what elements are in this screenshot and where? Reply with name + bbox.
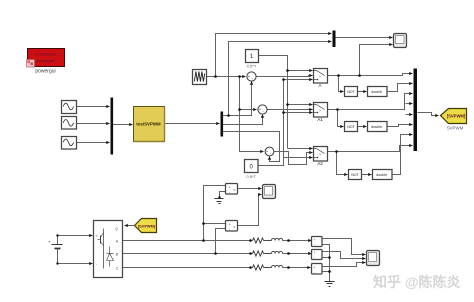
svg-text:+: + bbox=[314, 238, 316, 242]
sine wave source 2 bbox=[62, 117, 77, 130]
wire sum1 out to switchA in2 bbox=[256, 76, 313, 77]
wire switchA branch to NOT1 bbox=[339, 76, 344, 92]
junction trunk1 A1 bbox=[286, 103, 289, 106]
svg-text:-: - bbox=[314, 242, 315, 246]
scope Scope2 bbox=[263, 185, 276, 199]
wire sum2 out to switchA1 in2 bbox=[267, 109, 313, 111]
wire constant1 to trunk bbox=[259, 56, 288, 149]
junction trunk1 A bbox=[286, 69, 289, 72]
junction carrier riser bbox=[214, 75, 217, 78]
universal bridge bbox=[94, 221, 123, 278]
series RLC branch L1 bbox=[264, 238, 283, 240]
wire sum3 out to switchA2 in2 bbox=[274, 152, 313, 165]
logical operator NOT3 bbox=[349, 170, 362, 180]
svg-text:+: + bbox=[259, 107, 262, 112]
wire constant0 to trunk0 bbox=[259, 80, 284, 166]
svg-text:[SVPWM]: [SVPWM] bbox=[447, 114, 466, 119]
voltage measurement VM2 bbox=[226, 221, 238, 232]
wire trunk0 branch to switchA in3 bbox=[284, 79, 313, 81]
svg-text:0.5*T: 0.5*T bbox=[247, 64, 257, 69]
wire switchA1 out to mux2 bbox=[328, 94, 413, 110]
scope Scope1 bbox=[394, 34, 407, 48]
wire double3 to mux2 bbox=[392, 135, 413, 175]
wire NOT3 to double3 bbox=[362, 174, 372, 176]
svg-text:double: double bbox=[376, 173, 387, 177]
wire phase B line bbox=[123, 253, 253, 255]
wire demux out3 wrap to sum3 bottom bbox=[223, 132, 280, 162]
junction VM5 neutral bbox=[328, 270, 331, 273]
junction scope1 riser bbox=[358, 74, 361, 77]
series RLC branch R3 bbox=[253, 265, 264, 270]
wire trunk1 branch to switchA2 in1 bbox=[288, 148, 313, 150]
svg-text:+: + bbox=[229, 222, 231, 226]
wire VM2 in2 tap from phase B bbox=[216, 229, 226, 254]
series RLC branch R1 bbox=[253, 238, 264, 243]
junction DC top corner bbox=[56, 234, 58, 236]
svg-text:double: double bbox=[371, 90, 382, 94]
wire mux2 to goto tag bbox=[418, 113, 439, 116]
junction carrier trunk bbox=[238, 75, 241, 78]
svg-text:+: + bbox=[48, 240, 51, 245]
junction L1 right bbox=[287, 239, 290, 242]
wire carrier branch to sum2 bbox=[240, 109, 257, 111]
sum Add1 bbox=[247, 72, 256, 81]
svg-text:SVPWM: SVPWM bbox=[447, 126, 464, 131]
wire carrier repseq to sum1 bbox=[207, 76, 246, 78]
series RLC branch L2 bbox=[264, 251, 283, 253]
wire NOT2 to double2 bbox=[358, 126, 367, 128]
junction VM4 neutral bbox=[328, 256, 331, 259]
wire carrier riser to scope line1 bbox=[216, 34, 332, 77]
powergui block bbox=[27, 49, 65, 75]
junction R2 left bbox=[249, 252, 252, 255]
mux Mux3 top bbox=[333, 31, 336, 48]
svg-text:+: + bbox=[229, 185, 231, 189]
wire VM2 to scope2 bbox=[238, 195, 262, 226]
junction switchA1 out bbox=[336, 108, 339, 111]
switch A1 bbox=[314, 103, 328, 122]
wire demux out1 riser to scope line2 bbox=[229, 42, 332, 116]
mux Mux1 bbox=[111, 98, 114, 155]
svg-text:testSVPWM: testSVPWM bbox=[136, 122, 161, 127]
repeating sequence carrier bbox=[193, 70, 207, 85]
wire trunk0 branch to switchA2 in3 bbox=[284, 157, 313, 159]
wire mux2 stub in5 bbox=[406, 114, 413, 116]
wire trunk1 branch to switchA1 in1 bbox=[288, 104, 313, 106]
wire switchA2 out to mux2 bbox=[328, 146, 413, 152]
junction switchA2 out bbox=[335, 150, 338, 153]
wire VM1 in2 to ground1 bbox=[220, 192, 226, 199]
voltage measurement VM5 bbox=[312, 264, 323, 275]
constant Constant1 value 1 bbox=[246, 50, 259, 69]
data type conversion double2 bbox=[368, 122, 388, 132]
svg-text:powergui: powergui bbox=[37, 58, 55, 63]
svg-text:知乎 @陈陈炎: 知乎 @陈陈炎 bbox=[373, 274, 461, 290]
svg-text:+: + bbox=[266, 149, 269, 154]
wire phase C after RL to VM5 bbox=[283, 267, 311, 269]
wire mux1 to testSVPWM bbox=[113, 124, 133, 126]
junction DC bottom corner bbox=[56, 262, 58, 264]
junction R1 left bbox=[249, 239, 252, 242]
logical operator NOT2 bbox=[345, 122, 358, 132]
svg-text:NOT: NOT bbox=[347, 125, 355, 129]
switch A bbox=[314, 69, 328, 88]
DC voltage source battery bbox=[48, 240, 63, 249]
wire phase B after RL to VM4 bbox=[283, 253, 312, 255]
svg-text:+: + bbox=[248, 74, 251, 79]
wire demux out1 to sum1 bottom bbox=[223, 82, 252, 116]
svg-text:NOT: NOT bbox=[347, 90, 355, 94]
svg-text:powergui: powergui bbox=[35, 69, 55, 75]
series RLC branch L3 bbox=[264, 265, 283, 267]
wire scope1 input2 riser bbox=[360, 45, 393, 76]
sum Add3 bbox=[265, 147, 274, 156]
wire double2 to mux2 bbox=[387, 125, 413, 127]
junction trunk0 A1 bbox=[282, 111, 285, 114]
wire sine2 to mux bbox=[77, 123, 110, 125]
wire testSVPWM to demux bbox=[165, 123, 220, 125]
junction ground1 top bbox=[218, 196, 220, 198]
voltage measurement VM1 bbox=[226, 184, 238, 195]
wire switchA out to mux2 bbox=[328, 74, 413, 76]
wire VM5 neutral bbox=[322, 271, 330, 273]
wire switchA2 branch to NOT3 bbox=[337, 152, 348, 175]
from tag SVPWM1 bbox=[135, 219, 157, 233]
wire sine3 to mux bbox=[77, 142, 110, 144]
demux Demux bbox=[221, 112, 224, 137]
junction VM2 tap on B bbox=[214, 252, 217, 255]
wire trunk0 branch to switchA1 in3 bbox=[284, 112, 313, 114]
junction L3 right bbox=[287, 266, 290, 269]
wire phase C line bbox=[123, 267, 253, 269]
svg-text:+: + bbox=[314, 266, 316, 270]
junction demux out1 bbox=[227, 114, 230, 117]
wire phase A line bbox=[123, 240, 253, 242]
wire VM5 out to scope3 bbox=[322, 263, 366, 267]
wire VM1 in1 tap from phase A bbox=[204, 186, 226, 241]
wire demux out2 to sum2 bottom bbox=[223, 115, 263, 125]
svg-text:NOT: NOT bbox=[351, 173, 359, 177]
svg-text:A2: A2 bbox=[317, 161, 323, 166]
wire DC source top to bridge bbox=[58, 236, 93, 245]
goto tag SVPWM bbox=[441, 109, 467, 131]
svg-text:>: > bbox=[319, 153, 321, 157]
wire DC source bottom to bridge bbox=[58, 250, 93, 264]
wire NOT1 to double1 bbox=[358, 91, 367, 93]
wire mux2 stub in4 bbox=[406, 103, 413, 105]
svg-text:>: > bbox=[319, 75, 321, 79]
logical operator NOT1 bbox=[345, 87, 358, 97]
wire VM4 out to scope3 bbox=[322, 252, 366, 259]
wire phase A after RL to VM3 bbox=[283, 240, 312, 242]
voltage measurement VM3 bbox=[312, 237, 323, 247]
switch A2 bbox=[314, 147, 328, 166]
wire VM3 neutral bbox=[322, 245, 330, 282]
svg-text:-: - bbox=[314, 255, 315, 259]
wire VM3 out to scope3 bbox=[322, 239, 366, 255]
junction R3 left bbox=[249, 266, 252, 269]
svg-text:[SVPWM]: [SVPWM] bbox=[138, 224, 156, 229]
wire VM1 to scope2 bbox=[238, 188, 262, 190]
svg-text:Continuous: Continuous bbox=[34, 52, 57, 57]
series RLC branch R2 bbox=[253, 251, 264, 256]
wire from tag to bridge gate bbox=[125, 225, 135, 227]
ground G1 bbox=[215, 199, 224, 204]
wire trunk1 branch to switchA in1 bbox=[288, 70, 313, 72]
junction VM1 tap on A bbox=[202, 239, 205, 242]
svg-text:0.5*T: 0.5*T bbox=[246, 174, 256, 179]
constant Constant value 0 bbox=[245, 160, 259, 180]
wire carrier branch to sum3 bbox=[240, 151, 264, 153]
wire mux3 to scope1 bbox=[336, 37, 393, 39]
sine wave source 3 bbox=[62, 137, 77, 150]
sum Add2 bbox=[258, 105, 267, 114]
junction L2 right bbox=[287, 252, 290, 255]
svg-text:-: - bbox=[314, 270, 315, 274]
svg-text:g: g bbox=[116, 227, 118, 231]
svg-text:double: double bbox=[371, 125, 382, 129]
ground G2 bbox=[325, 282, 335, 287]
wire VM4 neutral bbox=[322, 257, 330, 259]
svg-text:A1: A1 bbox=[317, 117, 323, 122]
mux Mux2 big bbox=[414, 69, 418, 152]
svg-text:C: C bbox=[116, 267, 119, 271]
wire VM2 in1 tap bbox=[204, 223, 226, 225]
data type conversion double3 bbox=[373, 170, 393, 180]
svg-text:+: + bbox=[314, 251, 316, 255]
wire double1 to mux2 bbox=[387, 84, 413, 92]
data type conversion double1 bbox=[368, 87, 388, 97]
wire carrier trunk bbox=[240, 77, 246, 152]
junction switchA out bbox=[337, 74, 340, 77]
junction carrier sum2 bbox=[238, 108, 241, 111]
junction VM taps meet bbox=[202, 222, 205, 225]
sine wave source 1 bbox=[62, 101, 77, 114]
wire sine1 to mux bbox=[77, 106, 110, 108]
subsystem testSVPWM bbox=[134, 107, 165, 142]
wire switchA1 branch to NOT2 bbox=[338, 110, 344, 127]
svg-text:>: > bbox=[319, 109, 321, 113]
scope Scope3 bbox=[367, 251, 380, 266]
voltage measurement VM4 bbox=[312, 250, 323, 260]
junction trunk0 A bbox=[282, 78, 285, 81]
